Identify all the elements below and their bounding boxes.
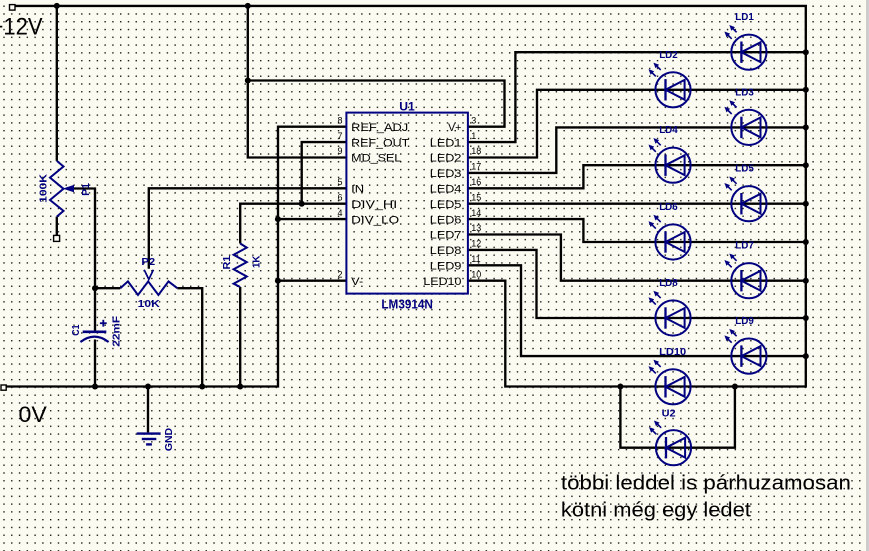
svg-text:10K: 10K xyxy=(138,299,161,310)
svg-text:IN: IN xyxy=(351,184,364,196)
svg-text:LD9: LD9 xyxy=(735,316,754,327)
svg-text:1K: 1K xyxy=(251,255,262,268)
svg-text:U1: U1 xyxy=(399,100,415,114)
svg-text:LD5: LD5 xyxy=(735,164,754,175)
svg-text:többi leddel is párhuzamosan: többi leddel is párhuzamosan xyxy=(561,472,851,495)
svg-text:LED2: LED2 xyxy=(430,153,462,165)
svg-text:U2: U2 xyxy=(662,409,676,420)
svg-text:11: 11 xyxy=(471,254,480,264)
svg-text:7: 7 xyxy=(337,131,342,141)
svg-text:LM3914N: LM3914N xyxy=(381,298,433,312)
svg-text:LED1: LED1 xyxy=(430,137,462,149)
svg-text:LED5: LED5 xyxy=(430,199,462,211)
svg-text:13: 13 xyxy=(471,223,481,233)
svg-text:14: 14 xyxy=(471,208,481,218)
svg-text:4: 4 xyxy=(337,208,342,218)
svg-text:5: 5 xyxy=(337,177,342,187)
svg-text:P1: P1 xyxy=(81,183,92,196)
svg-text:8: 8 xyxy=(337,115,342,125)
svg-text:LED3: LED3 xyxy=(430,168,462,180)
svg-text:P2: P2 xyxy=(141,257,155,268)
svg-text:REF_ADJ: REF_ADJ xyxy=(351,122,408,134)
svg-text:LED7: LED7 xyxy=(430,230,462,242)
svg-text:3: 3 xyxy=(471,115,476,125)
svg-text:6: 6 xyxy=(337,192,342,202)
svg-text:LED9: LED9 xyxy=(430,261,462,273)
svg-text:100K: 100K xyxy=(39,173,50,203)
svg-text:LED6: LED6 xyxy=(430,214,462,226)
svg-text:LED8: LED8 xyxy=(430,245,462,257)
svg-text:16: 16 xyxy=(471,177,481,187)
svg-text:10: 10 xyxy=(471,269,481,279)
svg-text:22mF: 22mF xyxy=(112,316,123,347)
svg-text:LED10: LED10 xyxy=(423,276,461,288)
svg-text:V+: V+ xyxy=(448,122,461,134)
svg-text:18: 18 xyxy=(471,146,481,156)
svg-text:DIV_HI: DIV_HI xyxy=(351,199,397,211)
svg-text:17: 17 xyxy=(471,162,481,172)
svg-text:LD2: LD2 xyxy=(659,50,678,61)
svg-text:9: 9 xyxy=(337,146,342,156)
svg-text:LD8: LD8 xyxy=(659,278,678,289)
svg-text:1: 1 xyxy=(471,131,476,141)
svg-text:LD10: LD10 xyxy=(659,347,686,358)
svg-text:DIV_LO: DIV_LO xyxy=(351,214,399,226)
svg-text:GND: GND xyxy=(164,428,175,451)
svg-text:REF_OUT: REF_OUT xyxy=(351,137,410,149)
svg-text:LD7: LD7 xyxy=(735,241,754,252)
svg-text:kötni még egy ledet: kötni még egy ledet xyxy=(561,499,751,522)
svg-text:MD_SEL: MD_SEL xyxy=(351,153,401,165)
svg-text:2: 2 xyxy=(337,269,342,279)
svg-text:15: 15 xyxy=(471,192,481,202)
svg-text:C1: C1 xyxy=(71,324,82,336)
svg-text:12: 12 xyxy=(471,239,481,249)
svg-text:V-: V- xyxy=(351,276,364,288)
svg-text:+12V: +12V xyxy=(0,14,43,41)
svg-text:R1: R1 xyxy=(222,255,233,269)
svg-text:LD4: LD4 xyxy=(659,125,678,136)
svg-text:LED4: LED4 xyxy=(430,184,462,196)
svg-text:0V: 0V xyxy=(19,402,47,427)
svg-text:LD3: LD3 xyxy=(735,87,754,98)
svg-text:LD1: LD1 xyxy=(735,12,754,23)
svg-text:LD6: LD6 xyxy=(659,202,678,213)
